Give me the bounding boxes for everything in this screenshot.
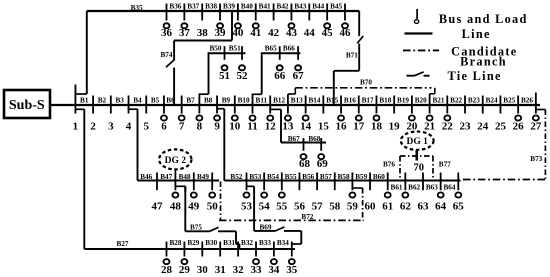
svg-text:B21: B21 <box>432 97 444 105</box>
svg-text:Bus and Load: Bus and Load <box>439 12 528 26</box>
svg-text:30: 30 <box>197 264 209 276</box>
svg-text:31: 31 <box>215 264 226 276</box>
svg-text:B12: B12 <box>273 97 285 105</box>
svg-text:B42: B42 <box>277 3 289 11</box>
svg-text:7: 7 <box>179 121 185 133</box>
svg-text:B68: B68 <box>308 135 320 143</box>
svg-text:B1: B1 <box>80 97 89 105</box>
svg-text:B27: B27 <box>117 240 129 248</box>
svg-text:5: 5 <box>143 121 149 133</box>
svg-text:B11: B11 <box>256 97 268 105</box>
svg-text:29: 29 <box>179 264 191 276</box>
svg-text:1: 1 <box>73 121 79 133</box>
svg-text:12: 12 <box>265 121 277 133</box>
svg-text:49: 49 <box>188 201 200 213</box>
svg-text:B48: B48 <box>179 173 191 181</box>
svg-text:8: 8 <box>197 121 203 133</box>
svg-text:DG 2: DG 2 <box>165 156 187 166</box>
svg-text:B55: B55 <box>285 173 297 181</box>
svg-text:B10: B10 <box>238 97 250 105</box>
svg-text:DG 1: DG 1 <box>407 137 429 147</box>
svg-text:25: 25 <box>495 121 507 133</box>
svg-text:B54: B54 <box>267 173 279 181</box>
svg-text:24: 24 <box>477 121 489 133</box>
svg-text:B63: B63 <box>426 184 438 192</box>
svg-text:4: 4 <box>126 121 132 133</box>
svg-text:B16: B16 <box>344 97 356 105</box>
svg-text:55: 55 <box>276 201 288 213</box>
svg-text:Line: Line <box>462 27 491 41</box>
svg-text:B71: B71 <box>346 51 358 59</box>
svg-text:67: 67 <box>293 70 305 82</box>
svg-text:B50: B50 <box>210 45 222 53</box>
svg-text:35: 35 <box>286 264 298 276</box>
svg-text:B22: B22 <box>450 97 462 105</box>
svg-text:B41: B41 <box>259 3 271 11</box>
svg-text:B62: B62 <box>408 184 420 192</box>
svg-text:17: 17 <box>353 121 365 133</box>
svg-text:B77: B77 <box>439 161 451 169</box>
svg-text:51: 51 <box>219 70 230 82</box>
svg-text:B40: B40 <box>241 3 253 11</box>
svg-text:B38: B38 <box>205 3 217 11</box>
svg-text:60: 60 <box>365 201 377 213</box>
svg-text:B9: B9 <box>222 97 231 105</box>
svg-text:13: 13 <box>282 121 294 133</box>
svg-text:53: 53 <box>241 201 253 213</box>
svg-text:B30: B30 <box>205 239 217 247</box>
svg-text:B74: B74 <box>161 51 173 59</box>
svg-text:B75: B75 <box>190 223 202 231</box>
svg-text:38: 38 <box>197 27 209 39</box>
svg-text:B43: B43 <box>294 3 306 11</box>
svg-text:63: 63 <box>418 201 430 213</box>
svg-text:18: 18 <box>371 121 383 133</box>
svg-text:33: 33 <box>251 264 263 276</box>
svg-text:B70: B70 <box>360 78 372 86</box>
svg-text:B24: B24 <box>486 97 498 105</box>
svg-text:Tie Line: Tie Line <box>447 69 501 83</box>
svg-text:B37: B37 <box>187 3 199 11</box>
svg-text:41: 41 <box>250 27 261 39</box>
svg-text:48: 48 <box>170 201 182 213</box>
svg-text:19: 19 <box>389 121 401 133</box>
svg-text:54: 54 <box>259 201 271 213</box>
svg-text:57: 57 <box>312 201 324 213</box>
svg-text:B25: B25 <box>503 97 515 105</box>
svg-text:26: 26 <box>513 121 525 133</box>
svg-text:43: 43 <box>286 27 298 39</box>
svg-text:B34: B34 <box>277 239 289 247</box>
svg-text:B51: B51 <box>229 45 241 53</box>
svg-text:B67: B67 <box>288 135 300 143</box>
svg-text:Branch: Branch <box>460 55 507 69</box>
svg-text:B45: B45 <box>330 3 342 11</box>
svg-text:B49: B49 <box>197 173 209 181</box>
svg-text:B39: B39 <box>223 3 235 11</box>
svg-text:22: 22 <box>442 121 454 133</box>
svg-text:56: 56 <box>294 201 306 213</box>
svg-text:27: 27 <box>530 121 542 133</box>
svg-text:37: 37 <box>179 27 191 39</box>
svg-text:10: 10 <box>229 121 241 133</box>
svg-text:B66: B66 <box>283 45 295 53</box>
svg-text:B13: B13 <box>291 97 303 105</box>
svg-text:9: 9 <box>214 121 220 133</box>
svg-text:15: 15 <box>318 121 330 133</box>
svg-text:44: 44 <box>304 27 316 39</box>
svg-text:B2: B2 <box>98 97 107 105</box>
svg-text:B60: B60 <box>373 173 385 181</box>
svg-text:52: 52 <box>237 70 249 82</box>
svg-text:2: 2 <box>90 121 96 133</box>
svg-text:34: 34 <box>268 264 280 276</box>
svg-text:16: 16 <box>336 121 348 133</box>
svg-text:B33: B33 <box>259 239 271 247</box>
svg-text:3: 3 <box>108 121 114 133</box>
svg-text:70: 70 <box>413 163 424 174</box>
svg-text:42: 42 <box>268 27 280 39</box>
svg-text:B28: B28 <box>169 239 181 247</box>
svg-text:46: 46 <box>340 27 352 39</box>
svg-text:B26: B26 <box>521 97 533 105</box>
svg-text:Sub-S: Sub-S <box>9 98 45 113</box>
svg-text:39: 39 <box>215 27 227 39</box>
svg-text:B56: B56 <box>302 173 314 181</box>
svg-text:B53: B53 <box>249 173 261 181</box>
svg-text:B32: B32 <box>241 239 253 247</box>
svg-text:66: 66 <box>274 70 286 82</box>
svg-text:B19: B19 <box>397 97 409 105</box>
svg-text:47: 47 <box>152 201 164 213</box>
svg-text:B17: B17 <box>362 97 374 105</box>
svg-text:28: 28 <box>161 264 173 276</box>
svg-text:B8: B8 <box>204 97 213 105</box>
svg-text:B73: B73 <box>530 155 542 163</box>
svg-text:B64: B64 <box>443 184 455 192</box>
svg-text:B35: B35 <box>131 4 143 12</box>
svg-text:62: 62 <box>400 201 412 213</box>
svg-text:B31: B31 <box>223 239 235 247</box>
svg-text:B3: B3 <box>115 97 124 105</box>
svg-text:64: 64 <box>435 201 447 213</box>
svg-text:21: 21 <box>424 121 435 133</box>
svg-text:61: 61 <box>382 201 393 213</box>
svg-text:B15: B15 <box>326 97 338 105</box>
svg-text:B23: B23 <box>468 97 480 105</box>
svg-text:B14: B14 <box>308 97 320 105</box>
svg-text:45: 45 <box>322 27 334 39</box>
svg-text:23: 23 <box>460 121 472 133</box>
svg-text:B46: B46 <box>140 173 152 181</box>
svg-text:B72: B72 <box>301 213 313 221</box>
svg-text:B36: B36 <box>169 3 181 11</box>
svg-text:69: 69 <box>317 158 329 170</box>
svg-text:B18: B18 <box>379 97 391 105</box>
svg-text:58: 58 <box>329 201 341 213</box>
svg-text:B44: B44 <box>312 3 324 11</box>
svg-text:B29: B29 <box>187 239 199 247</box>
svg-text:B52: B52 <box>230 173 242 181</box>
svg-text:B4: B4 <box>133 97 142 105</box>
svg-text:B65: B65 <box>265 45 277 53</box>
svg-text:B59: B59 <box>355 173 367 181</box>
svg-text:40: 40 <box>232 27 244 39</box>
svg-text:B69: B69 <box>260 223 272 231</box>
svg-text:B47: B47 <box>160 173 172 181</box>
svg-text:50: 50 <box>207 201 219 213</box>
svg-text:20: 20 <box>406 121 418 133</box>
svg-text:B5: B5 <box>151 97 160 105</box>
svg-text:65: 65 <box>453 201 465 213</box>
svg-text:68: 68 <box>299 158 311 170</box>
svg-text:36: 36 <box>161 27 173 39</box>
svg-text:32: 32 <box>233 264 245 276</box>
svg-text:B61: B61 <box>391 184 403 192</box>
svg-text:6: 6 <box>161 121 167 133</box>
svg-text:11: 11 <box>247 121 257 133</box>
svg-text:B7: B7 <box>186 97 195 105</box>
svg-text:B58: B58 <box>338 173 350 181</box>
svg-text:B20: B20 <box>415 97 427 105</box>
svg-text:59: 59 <box>347 201 359 213</box>
svg-text:14: 14 <box>300 121 312 133</box>
svg-text:B76: B76 <box>383 161 395 169</box>
svg-text:B57: B57 <box>320 173 332 181</box>
